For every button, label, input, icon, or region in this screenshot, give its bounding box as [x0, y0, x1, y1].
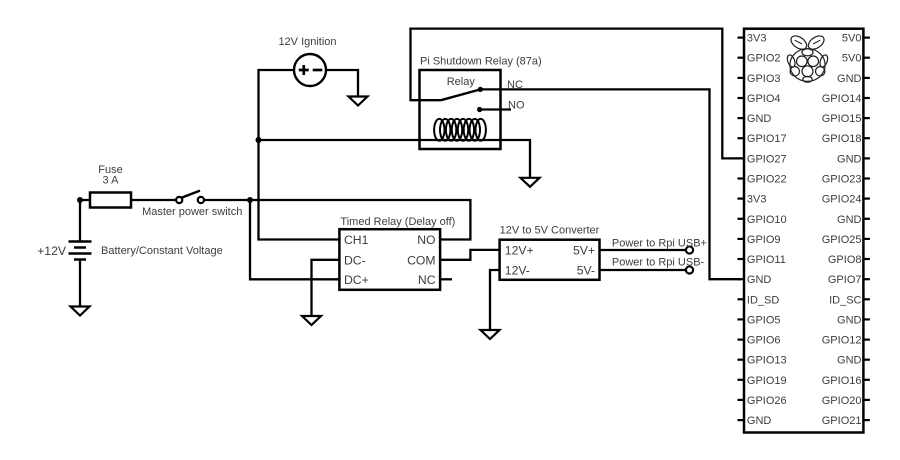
pin row 10: GPIO10 / GND — [738, 214, 870, 226]
svg-text:NC: NC — [418, 273, 436, 287]
svg-text:3V3: 3V3 — [747, 33, 767, 45]
svg-text:Master power switch: Master power switch — [142, 206, 242, 218]
pin row 7: GPIO27 / GND — [738, 153, 870, 165]
connector J1 Raspberry Pi GPIO header — [744, 29, 863, 433]
ground timed relay DC- — [302, 316, 321, 325]
voltage source V1 12V ignition — [294, 54, 326, 86]
svg-text:GPIO4: GPIO4 — [747, 93, 781, 105]
wire ignition to relay coil — [259, 139, 421, 141]
svg-text:12V Ignition: 12V Ignition — [278, 36, 336, 48]
pin row 8: GPIO22 / GPIO23 — [738, 174, 870, 186]
wire ignition negative lead — [326, 70, 358, 97]
pin 12V- — [505, 263, 530, 277]
pin row 18: GPIO19 / GPIO16 — [738, 375, 870, 387]
pin DC- — [344, 253, 366, 267]
pin row 13: GND / GPIO7 — [738, 274, 870, 286]
wire relay common from GPIO27 routing — [411, 29, 742, 159]
ground battery — [71, 307, 90, 316]
svg-text:12V+: 12V+ — [505, 243, 534, 257]
svg-text:5V0: 5V0 — [842, 53, 862, 65]
svg-text:GPIO6: GPIO6 — [747, 335, 781, 347]
relay K1 Pi shutdown relay box — [420, 70, 501, 149]
svg-text:Timed Relay (Delay off): Timed Relay (Delay off) — [340, 216, 455, 228]
label 12V Ignition — [278, 36, 336, 48]
pin row 12: GPIO11 / GPIO8 — [738, 254, 870, 266]
svg-text:GPIO9: GPIO9 — [747, 234, 781, 246]
label Relay — [447, 76, 476, 88]
svg-text:GPIO22: GPIO22 — [747, 174, 787, 186]
switch S1 master power switch — [176, 191, 204, 203]
wire NO stub — [480, 108, 511, 110]
svg-text:GPIO15: GPIO15 — [822, 113, 862, 125]
inductor L1 relay coil — [434, 119, 486, 141]
svg-text:ID_SC: ID_SC — [829, 294, 861, 306]
pin row 3: GPIO3 / GND — [738, 73, 870, 85]
pin NO — [417, 233, 435, 247]
svg-text:GPIO17: GPIO17 — [747, 133, 787, 145]
wire battery positive lead to fuse line — [80, 200, 176, 241]
svg-text:GPIO14: GPIO14 — [822, 93, 862, 105]
node NC contact — [478, 87, 483, 92]
svg-text:DC-: DC- — [344, 253, 366, 267]
svg-text:GND: GND — [747, 113, 772, 125]
svg-text:Power to Rpi USB-: Power to Rpi USB- — [612, 257, 705, 269]
pin row 4: GPIO4 / GPIO14 — [738, 93, 870, 105]
svg-text:COM: COM — [407, 253, 435, 267]
svg-text:GPIO11: GPIO11 — [747, 254, 786, 266]
svg-text:DC+: DC+ — [344, 273, 369, 287]
ground converter 12V- — [481, 330, 500, 339]
svg-text:5V+: 5V+ — [573, 243, 595, 257]
svg-text:GPIO16: GPIO16 — [822, 375, 862, 387]
label 3 A — [103, 175, 120, 187]
wire battery negative lead — [79, 260, 81, 307]
svg-text:5V0: 5V0 — [842, 33, 862, 45]
pin row 16: GPIO6 / GPIO12 — [738, 335, 870, 347]
pin COM — [407, 253, 435, 267]
converter U2 12V to 5V box — [500, 240, 600, 280]
battery B1 +12V constant voltage — [69, 242, 92, 260]
wire COM to converter 12V+ — [441, 250, 500, 260]
svg-text:GPIO2: GPIO2 — [747, 53, 781, 65]
svg-text:GPIO19: GPIO19 — [747, 375, 787, 387]
svg-text:GPIO20: GPIO20 — [822, 395, 862, 407]
fuse F1 3A — [90, 193, 131, 208]
label Battery/Constant Voltage — [101, 245, 223, 257]
wire 12V- to ground — [490, 270, 500, 330]
svg-text:GPIO10: GPIO10 — [747, 214, 787, 226]
label 12V to 5V Converter — [500, 225, 600, 237]
svg-text:CH1: CH1 — [344, 233, 369, 247]
label Pi Shutdown Relay (87a) — [420, 56, 542, 68]
wire 5V- output — [600, 269, 686, 271]
pin row 1: 3V3 / 5V0 — [738, 33, 870, 45]
svg-text:NO: NO — [508, 100, 525, 112]
node switch-line junction to DC+ — [247, 197, 253, 203]
pin row 6: GPIO17 / GPIO18 — [738, 133, 870, 145]
svg-text:3 A: 3 A — [103, 175, 120, 187]
svg-text:Battery/Constant Voltage: Battery/Constant Voltage — [101, 245, 223, 257]
svg-text:Relay: Relay — [447, 76, 476, 88]
wire DC- to ground — [312, 260, 340, 316]
label NO — [508, 100, 525, 112]
svg-text:GPIO8: GPIO8 — [828, 254, 862, 266]
node NO contact — [477, 107, 482, 112]
node ignition-coil junction — [256, 137, 262, 143]
pin row 2: GPIO2 / 5V0 — [738, 53, 870, 65]
pin DC+ — [344, 273, 369, 287]
pin CH1 — [344, 233, 369, 247]
pin NC — [418, 273, 436, 287]
node battery-fuse junction — [77, 197, 83, 203]
svg-text:GPIO13: GPIO13 — [747, 355, 787, 367]
svg-text:GPIO27: GPIO27 — [747, 153, 787, 165]
svg-text:GPIO3: GPIO3 — [747, 73, 781, 85]
logo Raspberry Pi — [786, 33, 829, 82]
svg-text:GPIO24: GPIO24 — [822, 194, 862, 206]
pin row 5: GND / GPIO15 — [738, 113, 870, 125]
svg-text:GND: GND — [837, 153, 862, 165]
svg-text:NO: NO — [417, 233, 435, 247]
svg-text:GPIO12: GPIO12 — [822, 335, 862, 347]
wire ignition positive to CH1 — [259, 70, 340, 240]
svg-text:GPIO18: GPIO18 — [822, 133, 862, 145]
wire timed relay NC stub — [441, 278, 452, 280]
svg-text:ID_SD: ID_SD — [747, 294, 779, 306]
svg-text:12V to 5V Converter: 12V to 5V Converter — [500, 225, 600, 237]
timed relay U1 box — [339, 229, 440, 290]
pin 5V- — [577, 263, 595, 277]
wire coil feed through relay box and to ground — [420, 140, 531, 178]
svg-text:GND: GND — [747, 274, 772, 286]
wire 5V+ output — [600, 249, 686, 251]
pin row 11: GPIO9 / GPIO25 — [738, 234, 870, 246]
svg-text:GND: GND — [747, 415, 772, 427]
svg-text:GPIO21: GPIO21 — [822, 415, 862, 427]
terminal USB- — [686, 266, 693, 273]
wire junction to DC+ pin — [250, 200, 339, 279]
svg-text:5V-: 5V- — [577, 263, 595, 277]
label Fuse — [98, 164, 122, 176]
label NC — [507, 79, 523, 91]
svg-text:+12V: +12V — [37, 244, 67, 258]
label Power to Rpi USB+ — [612, 237, 707, 249]
svg-text:GND: GND — [837, 73, 862, 85]
svg-text:GND: GND — [837, 314, 862, 326]
pin row 17: GPIO13 / GND — [738, 355, 870, 367]
svg-text:GPIO26: GPIO26 — [747, 395, 787, 407]
pin 5V+ — [573, 243, 595, 257]
pin 12V+ — [505, 243, 534, 257]
svg-text:GND: GND — [837, 214, 862, 226]
pin row 20: GND / GPIO21 — [738, 415, 870, 427]
svg-text:Pi Shutdown Relay (87a): Pi Shutdown Relay (87a) — [420, 56, 542, 68]
pin row 15: GPIO5 / GND — [738, 314, 870, 326]
label Master power switch — [142, 206, 242, 218]
svg-text:GND: GND — [837, 355, 862, 367]
svg-text:GPIO5: GPIO5 — [747, 314, 781, 326]
pin row 9: 3V3 / GPIO24 — [738, 194, 870, 206]
ground relay coil — [521, 178, 540, 187]
relay switch arm — [441, 89, 480, 100]
svg-text:GPIO25: GPIO25 — [822, 234, 862, 246]
terminal USB+ — [686, 246, 693, 253]
label Power to Rpi USB- — [612, 257, 705, 269]
svg-text:Power to Rpi USB+: Power to Rpi USB+ — [612, 237, 707, 249]
label Timed Relay (Delay off) — [340, 216, 455, 228]
wire NC contact to GPIO GND pin — [480, 89, 741, 279]
svg-text:12V-: 12V- — [505, 263, 530, 277]
pin row 19: GPIO26 / GPIO20 — [738, 395, 870, 407]
svg-text:GPIO23: GPIO23 — [822, 174, 862, 186]
svg-text:3V3: 3V3 — [747, 194, 767, 206]
svg-text:GPIO7: GPIO7 — [828, 274, 862, 286]
wire switch to timed-relay NO — [204, 200, 470, 240]
label +12V — [37, 244, 67, 258]
pin row 14: ID_SD / ID_SC — [738, 294, 870, 306]
ground ignition — [349, 97, 368, 106]
